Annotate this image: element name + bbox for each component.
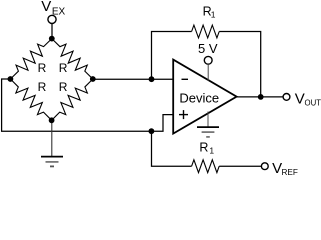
resistor R (bridge top-left): [10, 39, 51, 79]
node bridge top junction: [49, 36, 55, 42]
svg-text:R: R: [199, 141, 208, 155]
svg-text:R: R: [59, 61, 68, 75]
svg-text:EX: EX: [52, 6, 66, 17]
wire noninverting input jog: [151, 115, 173, 132]
node inverting input junction: [149, 76, 155, 82]
wire VEX stem: [51, 23, 53, 38]
svg-text:R: R: [59, 80, 68, 94]
node bridge left junction: [7, 76, 13, 82]
wire opamp output: [236, 96, 284, 98]
node noninverting branch junction: [149, 128, 155, 134]
svg-text:1: 1: [211, 10, 216, 20]
svg-text:OUT: OUT: [305, 99, 321, 108]
resistor R (bridge top-right): [52, 39, 93, 79]
wire feedback left vertical: [152, 32, 192, 80]
label R upper-left: [38, 61, 47, 75]
node 5V terminal: [204, 56, 212, 64]
svg-text:5 V: 5 V: [198, 41, 218, 56]
label VEX: [41, 0, 65, 17]
wire feedback right vertical: [219, 32, 261, 97]
op-amp U1 Device: [173, 60, 236, 134]
wire R1 to Vref terminal: [219, 165, 261, 167]
label R lower-left: [38, 80, 47, 94]
wire bridge right to opamp inverting input: [93, 78, 173, 80]
svg-text:Device: Device: [179, 90, 219, 105]
wire bridge left to bottom rail: [2, 79, 152, 131]
node VEX terminal: [48, 15, 56, 23]
node Vref terminal: [261, 163, 268, 170]
node bridge right junction: [90, 76, 96, 82]
label VREF: [272, 160, 298, 177]
svg-text:1: 1: [209, 146, 214, 156]
ground (bridge): [41, 120, 63, 166]
label R1 bottom: [199, 141, 214, 156]
svg-text:R: R: [38, 61, 47, 75]
ground (op-amp): [197, 112, 219, 137]
svg-text:V: V: [41, 0, 51, 15]
minus sign (inverting input): [182, 78, 189, 80]
plus sign (noninverting input): [179, 110, 188, 119]
resistor R (bridge bottom-right): [52, 79, 93, 120]
resistor R1 (feedback): [192, 25, 220, 38]
label R lower-right: [59, 80, 68, 94]
node bridge bottom junction: [49, 117, 55, 123]
resistor R1 (reference): [192, 160, 220, 173]
label VOUT: [295, 90, 321, 107]
svg-text:REF: REF: [282, 168, 298, 175]
label R upper-right: [59, 61, 68, 75]
label R1 top: [203, 5, 216, 20]
svg-text:R: R: [38, 80, 47, 94]
svg-text:V: V: [295, 90, 305, 107]
wire Vref branch down: [152, 131, 192, 166]
wire 5V stem: [207, 64, 209, 80]
resistor R (bridge bottom-left): [10, 79, 51, 120]
node Vout terminal: [283, 94, 290, 101]
node output junction: [258, 94, 264, 100]
label 5 V: [198, 41, 218, 56]
